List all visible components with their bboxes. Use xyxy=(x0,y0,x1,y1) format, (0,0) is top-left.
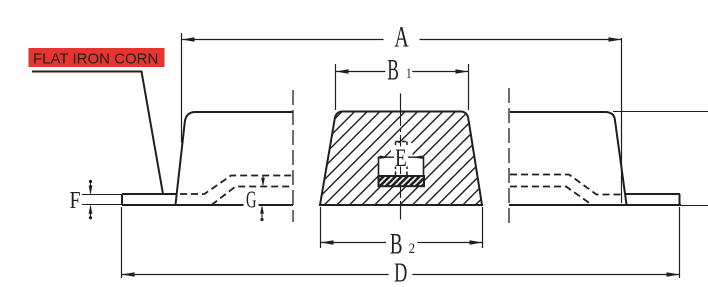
left view outline (flange, hump and base plate) xyxy=(122,112,293,205)
svg-text:D: D xyxy=(394,257,407,287)
svg-text:FLAT IRON CORN: FLAT IRON CORN xyxy=(33,51,158,68)
thin projection line top right xyxy=(613,111,708,113)
svg-text:G: G xyxy=(246,188,257,214)
dimension D xyxy=(122,207,680,278)
dimension A xyxy=(182,33,622,203)
thin projection line bottom right xyxy=(681,205,708,207)
right view hidden dashed step lines xyxy=(510,175,624,205)
svg-text:2: 2 xyxy=(409,241,415,257)
hidden hole dashed lines xyxy=(396,142,408,177)
right view outline (hump, flange and base plate) xyxy=(509,112,681,205)
dimension G xyxy=(262,176,263,219)
counterbore notch (white) xyxy=(378,143,424,177)
break line (right chain line) xyxy=(508,88,510,227)
label FLAT IRON CORN xyxy=(29,48,165,68)
flat iron insert (dense hatch) xyxy=(371,173,435,189)
dimension B1 xyxy=(336,64,469,110)
letter E xyxy=(394,145,408,172)
svg-text:A: A xyxy=(394,22,409,54)
svg-text:F: F xyxy=(70,188,81,214)
section hatching 45deg xyxy=(229,100,593,212)
leader line from label to flange xyxy=(32,72,163,195)
left view hidden dashed step lines xyxy=(180,176,293,206)
dimension F xyxy=(82,182,122,218)
section trapezoid outline xyxy=(320,112,482,206)
svg-text:1: 1 xyxy=(406,66,412,82)
letter G xyxy=(244,188,259,214)
break line (left chain line) xyxy=(292,90,294,222)
dimension E arrows xyxy=(380,156,423,159)
svg-text:E: E xyxy=(395,145,407,172)
dimension B2 xyxy=(321,207,483,248)
svg-text:B: B xyxy=(387,54,399,86)
centre line of section xyxy=(400,94,402,111)
